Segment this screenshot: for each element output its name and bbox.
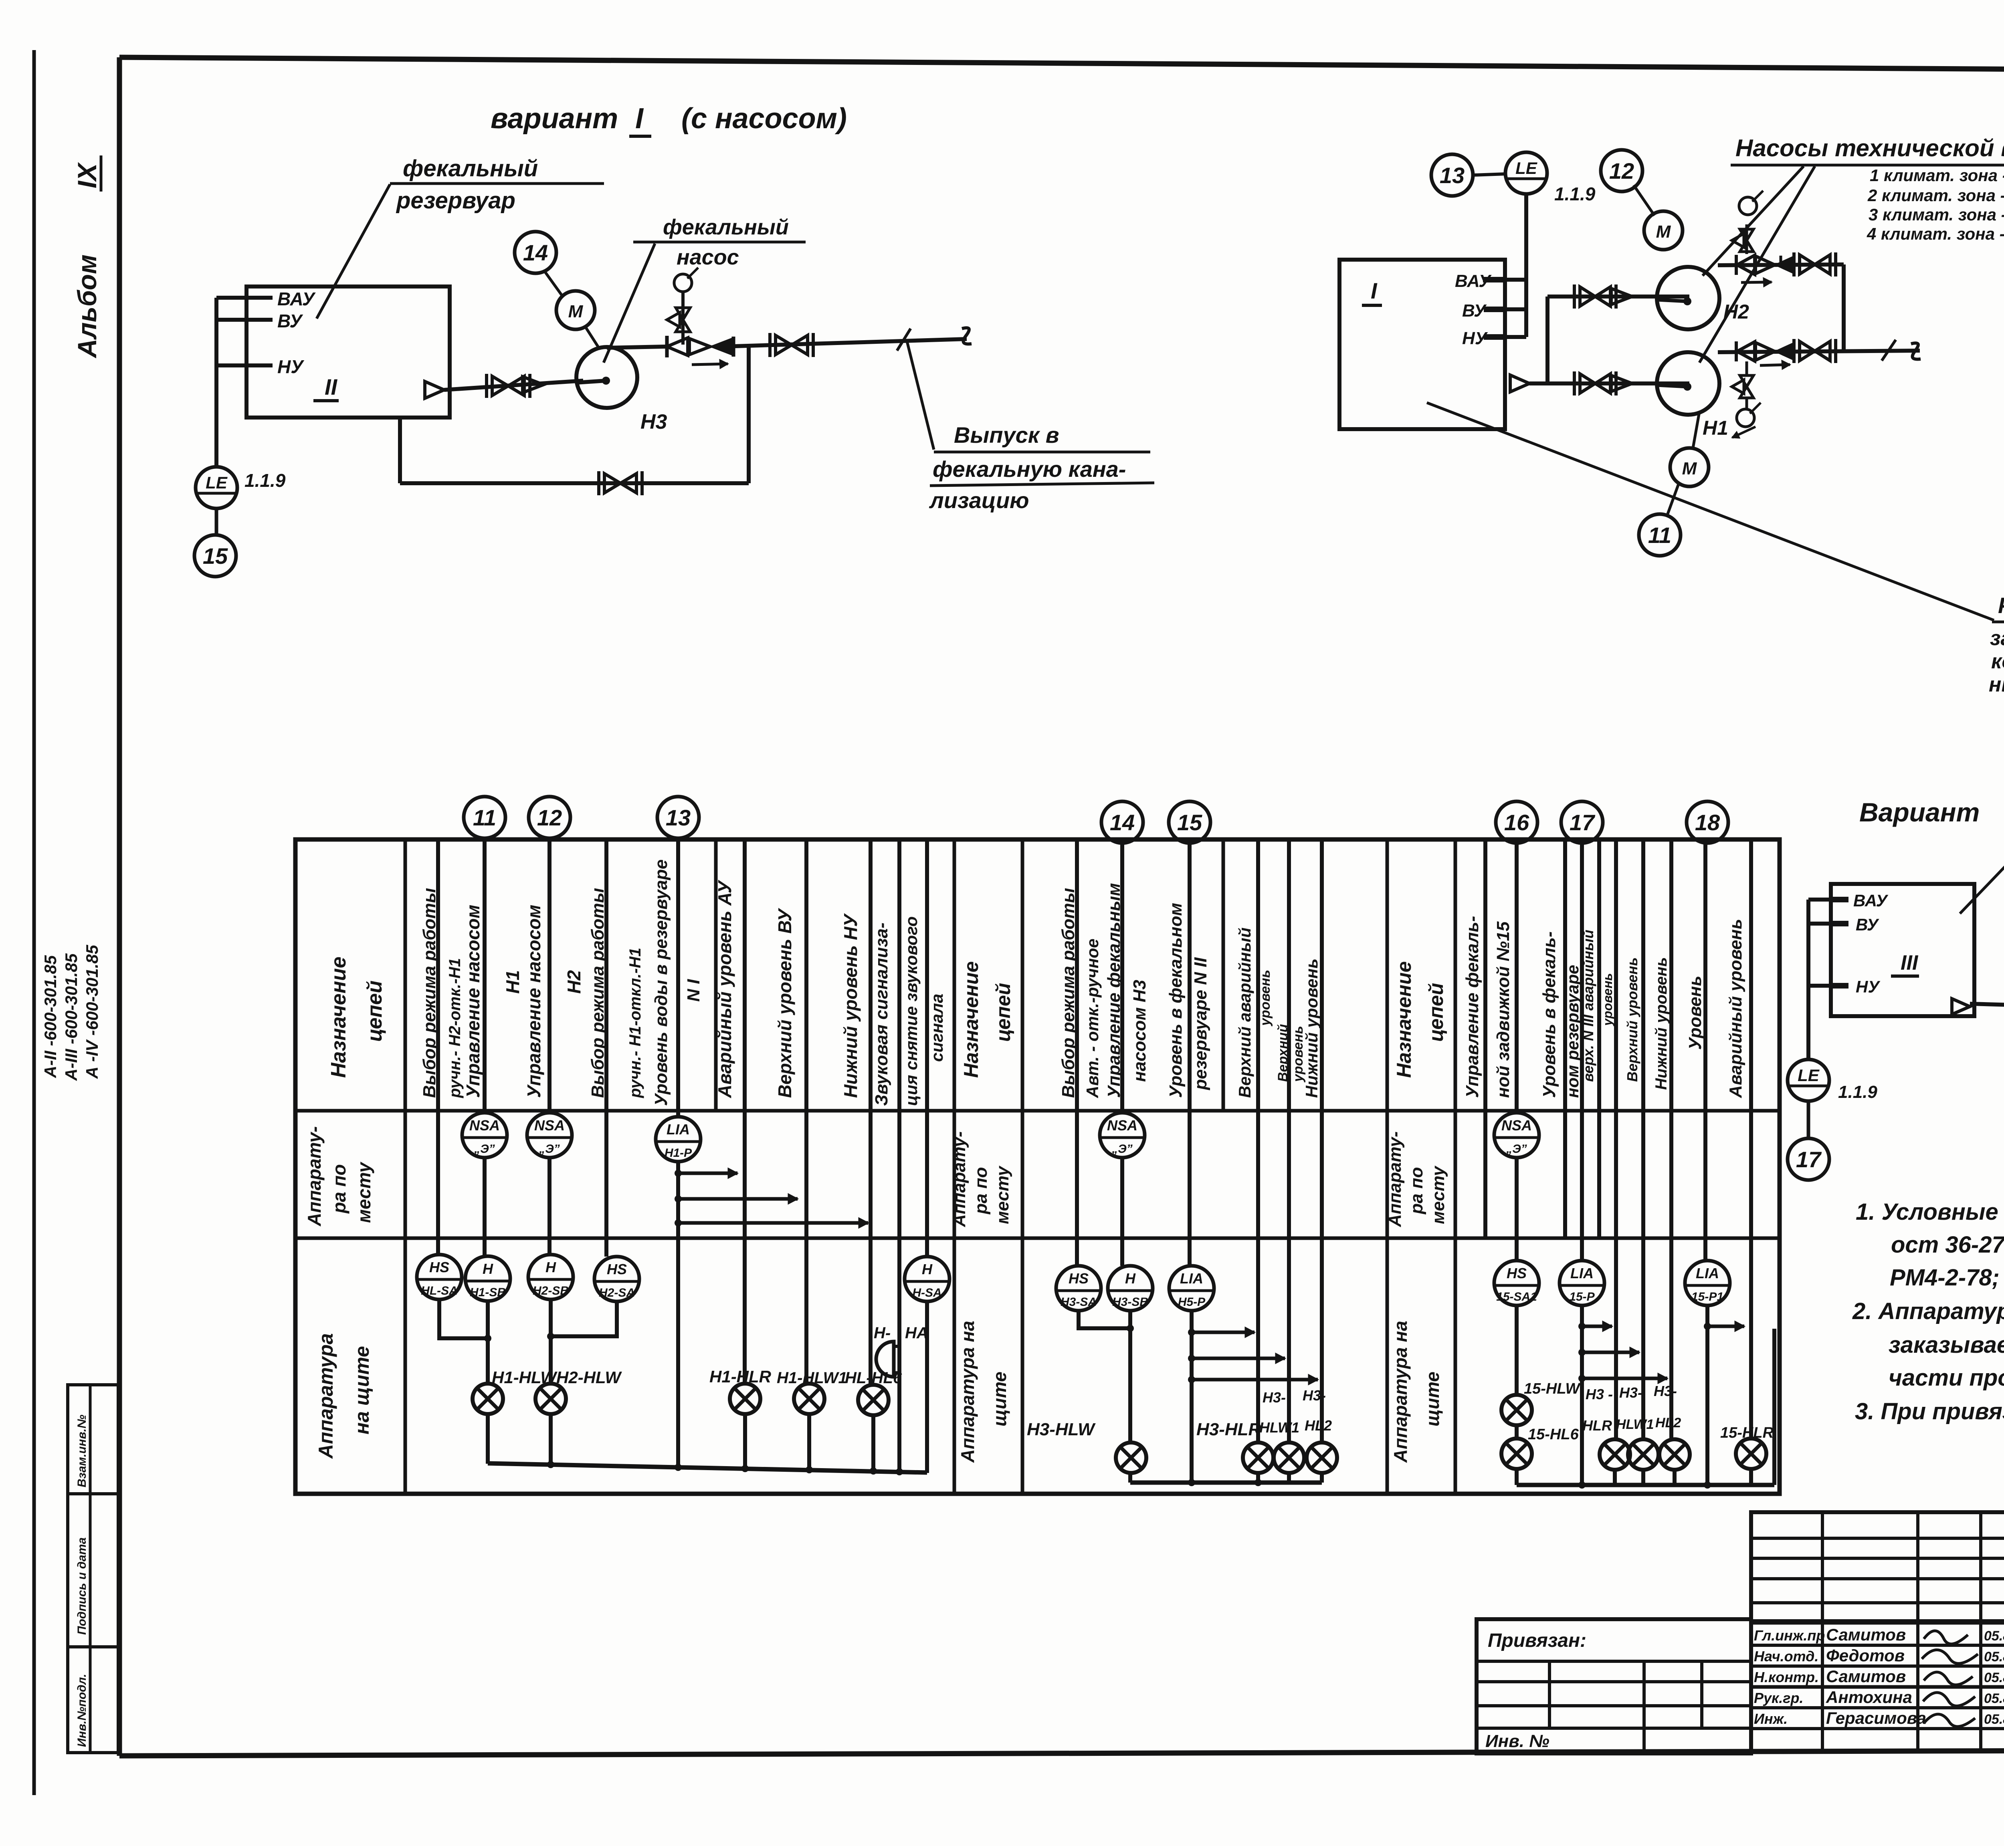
svg-text:резервуар: резервуар xyxy=(396,188,515,214)
wire hs h3-sa xyxy=(1075,839,1079,1266)
svg-text:цепей: цепей xyxy=(1425,983,1447,1042)
svg-text:15-SA1: 15-SA1 xyxy=(1496,1290,1537,1303)
svg-text:15-НL6: 15-НL6 xyxy=(1528,1426,1579,1443)
svg-text:ВАУ: ВАУ xyxy=(277,288,316,309)
svg-text:ВАУ: ВАУ xyxy=(1853,891,1889,910)
svg-text:Выбор режима работы: Выбор режима работы xyxy=(420,888,439,1098)
svg-text:Н1-SB: Н1-SB xyxy=(470,1286,506,1299)
svg-text:15: 15 xyxy=(1177,810,1202,835)
svg-text:Гл.инж.пр: Гл.инж.пр xyxy=(1754,1627,1825,1644)
tank I outlet funnel xyxy=(1510,375,1529,392)
svg-text:ручн.- Н2-отк.-Н1: ручн.- Н2-отк.-Н1 xyxy=(446,958,464,1098)
svg-text:Взам.инв.№: Взам.инв.№ xyxy=(75,1415,89,1487)
break mark discharge xyxy=(897,329,911,351)
svg-text:Герасимова: Герасимова xyxy=(1826,1709,1926,1727)
svg-text:15-НLR: 15-НLR xyxy=(1720,1424,1774,1441)
wire hl-sa elbow xyxy=(439,1299,488,1338)
table row line 1 xyxy=(295,1109,1780,1113)
svg-text:Аппарату-: Аппарату- xyxy=(949,1132,969,1228)
tank I stub VU xyxy=(1505,307,1526,311)
circle 17 xyxy=(1561,801,1603,843)
discharge H1 xyxy=(1718,351,1920,352)
svg-text:(с насосом): (с насосом) xyxy=(681,103,847,135)
svg-text:Уровень воды в резервуаре: Уровень воды в резервуаре xyxy=(651,859,671,1106)
svg-text:15-Р1: 15-Р1 xyxy=(1691,1290,1723,1303)
svg-text:05.84: 05.84 xyxy=(1984,1691,2004,1706)
svg-text:15-Р: 15-Р xyxy=(1569,1290,1595,1303)
wire 14 to M xyxy=(544,271,563,297)
svg-text:Выбор режима работы: Выбор режима работы xyxy=(588,888,608,1098)
svg-text:05.84: 05.84 xyxy=(1984,1670,2004,1685)
wire uroven fek xyxy=(1563,839,1567,1238)
circle 15 xyxy=(194,535,236,577)
sheet trim line left margin xyxy=(32,50,36,1795)
pump H1 xyxy=(1657,352,1719,415)
svg-text:Подпись и дата: Подпись и дата xyxy=(75,1537,89,1635)
wire zvuk 1 xyxy=(897,839,901,1472)
wire 15-p1 down xyxy=(1705,1305,1709,1485)
horn H-HA xyxy=(876,1342,894,1377)
circle 16 xyxy=(1496,801,1537,843)
lamp H3-HLW1 g2 xyxy=(1274,1442,1304,1473)
svg-text:Н: Н xyxy=(922,1261,933,1277)
svg-text:HS: HS xyxy=(607,1261,627,1277)
svg-text:Нижний уровень НУ: Нижний уровень НУ xyxy=(840,913,861,1098)
svg-text:Привязан:: Привязан: xyxy=(1488,1630,1586,1651)
svg-text:LE: LE xyxy=(1798,1066,1820,1085)
svg-text:NSA: NSA xyxy=(534,1117,565,1134)
wire 17 xyxy=(1580,843,1584,1261)
svg-text:Н1-Р: Н1-Р xyxy=(665,1146,692,1160)
frame border xyxy=(119,57,2004,73)
table row line 2 xyxy=(295,1237,1780,1240)
svg-text:05.84: 05.84 xyxy=(1984,1649,2004,1664)
svg-text:Насосы технической воды:: Насосы технической воды: xyxy=(1735,135,2004,161)
svg-text:Управление фекаль-: Управление фекаль- xyxy=(1463,916,1482,1098)
svg-text:Н: Н xyxy=(545,1259,556,1275)
svg-text:17: 17 xyxy=(1570,810,1596,835)
svg-text:Аппаратура на: Аппаратура на xyxy=(957,1321,978,1463)
flow arrow H3 xyxy=(692,364,728,365)
level stub VU xyxy=(216,318,273,322)
bubble LIA H1-P xyxy=(656,1117,701,1162)
svg-text:НLW1: НLW1 xyxy=(1616,1417,1654,1432)
arrow LIA3 1 xyxy=(1578,1323,1586,1330)
bubble LIA H5-P xyxy=(1169,1266,1214,1311)
circle 12 xyxy=(1601,150,1642,192)
svg-text:цепей: цепей xyxy=(363,980,386,1042)
wire 12 upper xyxy=(547,838,552,1113)
arrow LIA 2 xyxy=(675,1195,682,1202)
svg-text:Н: Н xyxy=(1125,1270,1136,1287)
svg-text:Аппаратура на: Аппаратура на xyxy=(1390,1321,1411,1463)
svg-text:ном резервуаре: ном резервуаре xyxy=(1563,965,1582,1098)
gauge branch H3 xyxy=(681,293,685,345)
tank III stub VU xyxy=(1808,922,1831,926)
svg-text:13: 13 xyxy=(1440,163,1465,188)
svg-text:LIA: LIA xyxy=(1570,1265,1594,1281)
suction valves H3 xyxy=(492,376,524,395)
svg-text:„Э”: „Э” xyxy=(474,1142,495,1156)
wire LE down xyxy=(1524,194,1528,337)
svg-text:1.1.9: 1.1.9 xyxy=(244,470,286,491)
check valve H3 xyxy=(689,339,710,355)
discharge H2 valves xyxy=(1735,255,1738,275)
svg-text:НА: НА xyxy=(905,1324,928,1342)
wire LE to 17 xyxy=(1807,1101,1810,1138)
svg-text:III: III xyxy=(1901,951,1919,974)
svg-text:НL-SA: НL-SA xyxy=(421,1284,458,1297)
svg-text:Н3-: Н3- xyxy=(1654,1383,1677,1399)
lamp H3-HLR g3 xyxy=(1600,1439,1630,1470)
discharge H2 xyxy=(1718,264,1844,265)
bubble NSA E 16 xyxy=(1494,1113,1539,1158)
svg-text:РМ4-2-78; РМ4-171-77.: РМ4-2-78; РМ4-171-77. xyxy=(1890,1265,2004,1291)
wire 11 mid xyxy=(483,1158,487,1256)
svg-text:запаса технчес-: запаса технчес- xyxy=(1990,627,2004,650)
table column line x=2551 xyxy=(1021,839,1024,1494)
svg-text:LIA: LIA xyxy=(1696,1265,1719,1281)
wire 14 upper xyxy=(1120,843,1124,1113)
svg-text:фекальный: фекальный xyxy=(663,215,789,239)
svg-text:уровень: уровень xyxy=(1600,973,1615,1027)
svg-text:Верхний: Верхний xyxy=(1275,1024,1291,1082)
svg-text:ВУ: ВУ xyxy=(1462,301,1487,321)
lamp H3-HL2 g3 xyxy=(1659,1439,1690,1470)
tank III outlet funnel xyxy=(1952,999,1970,1014)
pump H3 xyxy=(576,347,637,408)
lamp 15-HLW xyxy=(1501,1395,1532,1425)
lamp H2-HLW xyxy=(535,1384,566,1414)
bus group1 xyxy=(488,1463,927,1473)
gauge branch H1 down xyxy=(1745,361,1748,377)
svg-text:Вариант: Вариант xyxy=(1859,797,1980,827)
svg-text:„Э”: „Э” xyxy=(1111,1142,1133,1156)
bus group3 xyxy=(1517,1483,1774,1487)
gauge branch H2 xyxy=(1745,224,1748,254)
table column line x=2381 xyxy=(953,839,956,1494)
bubble NSA E 11 xyxy=(462,1113,507,1158)
suction valves H2 xyxy=(1580,287,1610,306)
svg-text:Антохина: Антохина xyxy=(1826,1688,1912,1707)
wire 14 mid xyxy=(1120,1158,1124,1266)
stamp boxes left margin xyxy=(68,1385,118,1753)
svg-text:Н3-HLR: Н3-HLR xyxy=(1196,1420,1261,1439)
circle 13 top xyxy=(1431,154,1473,196)
svg-text:Назначение: Назначение xyxy=(327,956,350,1078)
svg-text:16: 16 xyxy=(1504,810,1529,835)
svg-text:II: II xyxy=(325,374,338,399)
svg-text:Звуковая сигнализа-: Звуковая сигнализа- xyxy=(872,922,891,1106)
svg-text:НL2: НL2 xyxy=(1655,1415,1681,1430)
bubble HS H2-SA xyxy=(594,1257,639,1301)
wire h2-sa elbow xyxy=(551,1301,617,1336)
svg-text:15-HLW: 15-HLW xyxy=(1524,1380,1581,1397)
svg-text:Аварийный уровень АУ: Аварийный уровень АУ xyxy=(714,880,735,1098)
svg-text:11: 11 xyxy=(473,805,496,830)
svg-text:Выпуск в: Выпуск в xyxy=(954,422,1059,448)
svg-text:Выбор режима работы: Выбор режима работы xyxy=(1059,888,1078,1098)
bypass valve xyxy=(604,474,636,493)
motor M of H1 xyxy=(1670,448,1709,486)
svg-text:1 климат. зона - t = +14°С: 1 климат. зона - t = +14°С xyxy=(1870,166,2004,185)
svg-text:НУ: НУ xyxy=(1856,977,1881,996)
wire h3-sb down xyxy=(1128,1311,1132,1442)
wire 16 mid xyxy=(1515,1158,1519,1261)
svg-text:Н1: Н1 xyxy=(1703,417,1728,439)
arrow LIA2 2 xyxy=(1188,1355,1195,1362)
svg-text:заказывается в электротехнич: заказывается в электротехнической xyxy=(1889,1332,2004,1358)
level stub NU xyxy=(216,363,273,367)
svg-text:Уровень: Уровень xyxy=(1685,976,1705,1050)
arrow LIA2 3 xyxy=(1188,1376,1195,1383)
discharge H1 valves xyxy=(1735,341,1738,361)
circle 18 xyxy=(1687,801,1728,843)
bubble H H1-SB xyxy=(465,1256,510,1301)
svg-text:Н3-: Н3- xyxy=(1303,1387,1326,1404)
svg-text:кой воды, расположен-: кой воды, расположен- xyxy=(1991,650,2004,673)
svg-text:HS: HS xyxy=(1069,1270,1089,1287)
circle 13 xyxy=(657,797,699,838)
svg-text:Н3-SA: Н3-SA xyxy=(1061,1295,1097,1309)
wire 16 xyxy=(1515,843,1519,1113)
wire h-sa down xyxy=(925,1301,929,1473)
wire uroven small xyxy=(1614,839,1618,1326)
lamp 15-HL6 xyxy=(1501,1438,1532,1469)
svg-text:Аппарату-: Аппарату- xyxy=(1385,1132,1405,1228)
bubble NSA E 12 xyxy=(527,1113,572,1158)
wire lamp h1-hlw xyxy=(486,1301,490,1384)
motor M of H2 xyxy=(1644,211,1683,250)
svg-text:Назначение: Назначение xyxy=(960,961,982,1078)
svg-text:А -IV -600-301.85: А -IV -600-301.85 xyxy=(83,945,101,1079)
circle 11 xyxy=(1639,514,1681,556)
lamp H3-HLR xyxy=(1243,1442,1273,1473)
leader vypusk xyxy=(907,340,934,450)
svg-text:фекальный: фекальный xyxy=(403,155,538,182)
S end tech water xyxy=(1911,343,1921,359)
svg-text:05.84: 05.84 xyxy=(1984,1712,2004,1727)
svg-text:12: 12 xyxy=(1609,158,1634,184)
pipe to valve 15 xyxy=(1970,1004,2004,1007)
arrow LIA3 2 xyxy=(1578,1349,1586,1356)
svg-text:IX: IX xyxy=(72,162,102,188)
svg-text:I: I xyxy=(1371,278,1378,303)
wire avar uroven xyxy=(1749,839,1753,1326)
svg-text:11: 11 xyxy=(1648,523,1671,548)
wire M to pump xyxy=(586,328,599,348)
svg-text:цепей: цепей xyxy=(992,983,1014,1042)
tank reservoir III xyxy=(1831,884,1974,1016)
wire nizhnij xyxy=(1669,839,1673,1378)
motor M of H3 xyxy=(556,291,595,329)
svg-text:Инв. №: Инв. № xyxy=(1485,1731,1549,1751)
wire hs hl-sa xyxy=(436,839,440,1255)
bubble NSA E 14 xyxy=(1100,1113,1145,1158)
bubble HS 15-SA1 xyxy=(1494,1261,1539,1305)
pump H2 xyxy=(1657,267,1719,329)
svg-text:NSA: NSA xyxy=(1501,1117,1532,1134)
svg-text:05.84: 05.84 xyxy=(1984,1628,2004,1644)
svg-text:Аварийный уровень: Аварийный уровень xyxy=(1726,919,1745,1098)
wire 15-p down xyxy=(1580,1305,1584,1485)
bubble LIA 15-P1 xyxy=(1685,1261,1730,1305)
flow arrow H1 xyxy=(1760,365,1790,365)
svg-text:Верхний уровень: Верхний уровень xyxy=(1624,957,1640,1082)
svg-text:Управление фекальным: Управление фекальным xyxy=(1104,883,1124,1098)
svg-text:Верхний аварийный: Верхний аварийный xyxy=(1235,928,1254,1098)
svg-text:LE: LE xyxy=(206,473,228,492)
svg-text:части проекта.: части проекта. xyxy=(1889,1365,2004,1391)
svg-text:Н-SA: Н-SA xyxy=(912,1286,941,1299)
svg-text:3. При привязке ненужное: 3. При привязке ненужное зачеркнуть. xyxy=(1855,1398,2004,1424)
svg-text:Рук.гр.: Рук.гр. xyxy=(1754,1690,1804,1706)
svg-text:12: 12 xyxy=(537,805,562,830)
wire lia15 down xyxy=(1190,1311,1194,1483)
svg-text:щите: щите xyxy=(1422,1372,1443,1426)
svg-text:Самитов: Самитов xyxy=(1826,1667,1906,1686)
wire 15 upper xyxy=(1188,843,1192,1266)
svg-text:уровень: уровень xyxy=(1258,970,1273,1027)
svg-text:Управление насосом: Управление насосом xyxy=(463,905,483,1098)
flow arrow H2 xyxy=(1741,282,1772,282)
svg-text:Н3: Н3 xyxy=(640,410,667,434)
tank reservoir II xyxy=(246,286,450,418)
lamp HL-HL6 xyxy=(858,1385,889,1415)
svg-text:1.1.9: 1.1.9 xyxy=(1554,184,1596,204)
wire lamp hl6 xyxy=(871,1384,873,1385)
wire uroven 18 xyxy=(1703,843,1707,1261)
tank outlet funnel xyxy=(425,381,444,398)
circle 14 xyxy=(1101,801,1143,843)
svg-text:18: 18 xyxy=(1695,810,1720,835)
svg-text:М: М xyxy=(568,302,584,321)
svg-text:Управление насосом: Управление насосом xyxy=(523,905,544,1098)
discharge pipe H3 xyxy=(607,347,665,348)
leader to reservoir II xyxy=(317,184,390,319)
title block xyxy=(1751,1512,2004,1621)
svg-text:фекальную кана-: фекальную кана- xyxy=(933,456,1126,482)
wire level sensor III xyxy=(1806,900,1810,1059)
svg-text:Нижний уровень: Нижний уровень xyxy=(1302,958,1321,1098)
bypass riser xyxy=(747,347,751,483)
svg-text:Н2: Н2 xyxy=(1723,301,1749,323)
svg-text:Н3-HLW: Н3-HLW xyxy=(1027,1420,1096,1439)
table column line x=3461 xyxy=(1386,839,1389,1494)
svg-text:I: I xyxy=(635,103,644,135)
arrow LIA 3 xyxy=(675,1219,682,1227)
tank III stub NU xyxy=(1808,984,1831,988)
wire hs h2-sa xyxy=(604,839,608,1257)
svg-text:ВУ: ВУ xyxy=(277,311,303,331)
svg-text:насос: насос xyxy=(677,245,739,269)
svg-text:1.1.9: 1.1.9 xyxy=(1838,1082,1877,1102)
svg-text:Н3-SB: Н3-SB xyxy=(1112,1295,1148,1309)
svg-text:HS: HS xyxy=(1507,1265,1527,1281)
svg-text:13: 13 xyxy=(666,805,691,830)
svg-text:Федотов: Федотов xyxy=(1826,1646,1905,1665)
leader reservoir III xyxy=(1960,865,2004,914)
arrow LIA3 4 xyxy=(1704,1323,1711,1330)
svg-text:Н2-HLW: Н2-HLW xyxy=(556,1368,622,1387)
lamp H1-HLR xyxy=(730,1384,760,1414)
svg-text:А-II -600-301.85: А-II -600-301.85 xyxy=(41,955,60,1078)
discharge valve H3 xyxy=(665,336,669,357)
S end discharge xyxy=(962,328,972,344)
wire 13 to LE xyxy=(1473,174,1506,175)
leader to pump H3 xyxy=(604,244,655,363)
svg-text:4 климат. зона - t = + 24°С: 4 климат. зона - t = + 24°С xyxy=(1867,224,2004,243)
wire lamp hlw1 xyxy=(806,1383,809,1384)
svg-text:Н1: Н1 xyxy=(502,970,523,994)
circle 14 xyxy=(515,232,556,273)
svg-text:ра по: ра по xyxy=(329,1164,349,1214)
svg-text:2 климат. зона - t = +18°С: 2 климат. зона - t = +18°С xyxy=(1867,186,2004,205)
wire H1 to M xyxy=(1693,412,1699,448)
svg-text:месту: месту xyxy=(993,1165,1012,1224)
svg-text:„Э”: „Э” xyxy=(1506,1142,1527,1156)
wire 15-sa1 down xyxy=(1515,1305,1519,1395)
svg-text:ный вне сооружения: ный вне сооружения xyxy=(1989,673,2004,696)
wire verh avar xyxy=(1597,839,1601,1238)
wire h3-hlr xyxy=(1256,839,1260,1442)
svg-text:3 климат. зона - t = +21°: 3 климат. зона - t = +21°С xyxy=(1869,205,2004,224)
svg-text:N I: N I xyxy=(684,979,703,1002)
svg-text:Нижний уровень: Нижний уровень xyxy=(1652,957,1670,1090)
svg-text:вариант: вариант xyxy=(491,103,618,135)
svg-text:Самитов: Самитов xyxy=(1826,1625,1906,1644)
suction valves H1 xyxy=(1580,374,1610,393)
table column line x=3631 xyxy=(1454,839,1457,1494)
bubble H H-SA xyxy=(905,1257,949,1301)
svg-text:NSA: NSA xyxy=(469,1117,500,1134)
level sensor LE III xyxy=(1788,1059,1829,1101)
svg-text:Нач.отд.: Нач.отд. xyxy=(1754,1648,1818,1664)
bubble HS H3-SA xyxy=(1056,1266,1101,1311)
svg-text:Инв.№подл.: Инв.№подл. xyxy=(75,1674,89,1747)
bubble LIA 15-P xyxy=(1560,1261,1604,1305)
svg-text:НL2: НL2 xyxy=(1305,1417,1332,1434)
suction header xyxy=(1529,381,1689,385)
svg-text:на щите: на щите xyxy=(351,1346,373,1434)
svg-text:2. Аппаратура, обозначенная: 2. Аппаратура, обозначенная буквой „ Э” xyxy=(1852,1298,2004,1324)
svg-text:сигнала: сигнала xyxy=(927,994,946,1062)
svg-text:Н-: Н- xyxy=(874,1324,891,1342)
wire h3-sa elbow xyxy=(1079,1311,1130,1328)
svg-text:Н2-SA: Н2-SA xyxy=(599,1286,635,1299)
arrow LIA 1 xyxy=(675,1170,682,1177)
svg-text:Аппаратура: Аппаратура xyxy=(315,1333,337,1459)
svg-text:Верхний уровень ВУ: Верхний уровень ВУ xyxy=(774,908,795,1098)
svg-text:„Э”: „Э” xyxy=(539,1142,560,1156)
svg-text:ция снятие звукового: ция снятие звукового xyxy=(902,916,921,1106)
svg-text:насосом Н3: насосом Н3 xyxy=(1130,980,1149,1082)
tank I stub NU xyxy=(1505,335,1526,339)
level stub VAU xyxy=(216,296,273,300)
bypass pipe xyxy=(398,418,402,483)
svg-text:LIA: LIA xyxy=(667,1121,690,1138)
level sensor LE 1.1.9 xyxy=(196,467,237,508)
circle 15 xyxy=(1169,801,1210,843)
wire vu xyxy=(804,839,808,1383)
wire LE to 15 xyxy=(215,508,218,534)
tank III stub VAU xyxy=(1808,898,1831,902)
svg-text:Аппарату-: Аппарату- xyxy=(304,1126,325,1227)
svg-text:NSA: NSA xyxy=(1107,1117,1137,1134)
arrow LIA2 1 xyxy=(1188,1329,1195,1336)
svg-text:Альбом: Альбом xyxy=(72,254,102,359)
circle 11 xyxy=(464,797,505,838)
